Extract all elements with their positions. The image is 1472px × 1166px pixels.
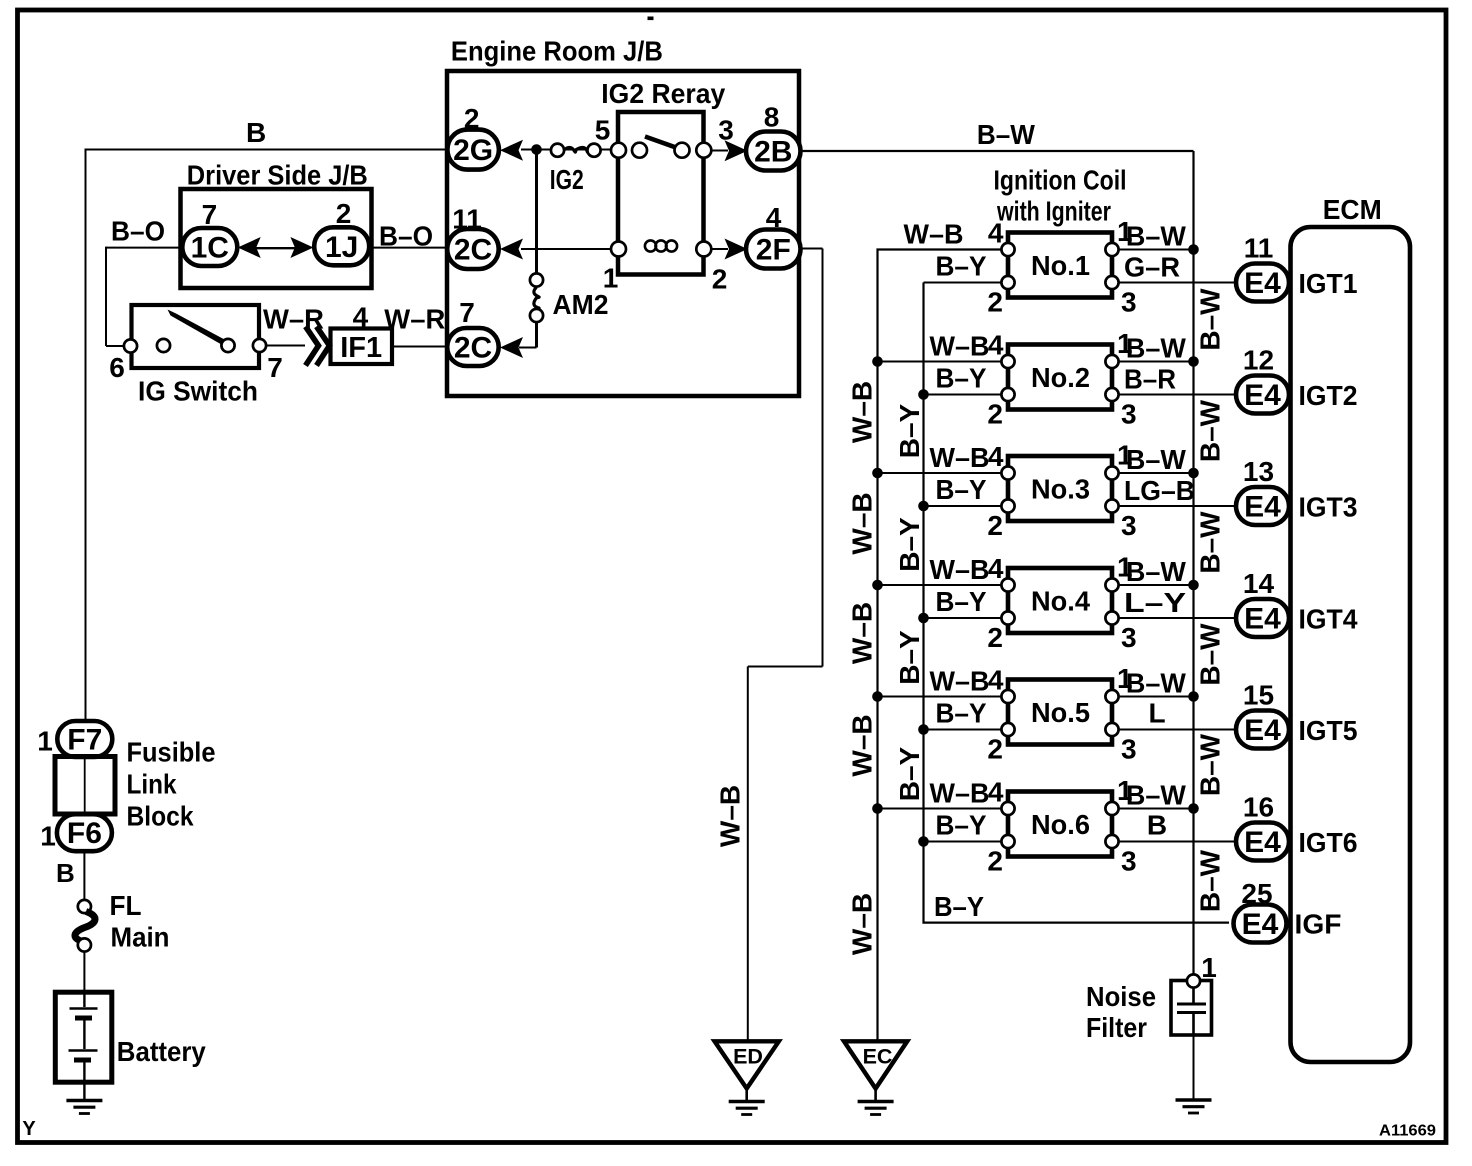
svg-text:16: 16 — [1243, 792, 1274, 823]
IG switch blade — [168, 310, 232, 349]
svg-text:B–O: B–O — [111, 216, 165, 247]
svg-text:4: 4 — [988, 777, 1004, 808]
IG switch terminal 7 (edge) — [253, 339, 266, 352]
svg-text:11: 11 — [1244, 233, 1274, 264]
svg-text:W–B: W–B — [904, 219, 964, 250]
svg-text:B–W: B–W — [977, 119, 1036, 150]
wire IF1 to 2C pin 7 — [392, 346, 448, 348]
IG switch terminal 6 — [124, 339, 137, 352]
svg-text:W–B: W–B — [846, 492, 877, 554]
svg-text:Driver Side J/B: Driver Side J/B — [187, 160, 368, 191]
svg-text:W–B: W–B — [930, 442, 990, 473]
svg-text:E4: E4 — [1242, 908, 1279, 941]
svg-text:3: 3 — [1121, 734, 1137, 765]
svg-text:W–B: W–B — [930, 666, 990, 697]
svg-text:IG2 Reray: IG2 Reray — [601, 78, 725, 109]
svg-text:B–W: B–W — [1126, 780, 1187, 811]
wire relay to 2B — [710, 150, 728, 152]
svg-text:2: 2 — [987, 622, 1003, 653]
svg-text:B–W: B–W — [1126, 668, 1187, 699]
svg-text:3: 3 — [1121, 510, 1137, 541]
svg-text:ED: ED — [733, 1045, 763, 1069]
coil No.2 pin 3 wire to E4 — [1119, 394, 1236, 396]
svg-text:14: 14 — [1243, 568, 1275, 599]
junction: coil No.6 pin2 on B-Y bus — [918, 836, 929, 847]
svg-text:7: 7 — [202, 199, 218, 230]
svg-text:12: 12 — [1243, 345, 1274, 376]
svg-text:15: 15 — [1243, 680, 1274, 711]
junction: coil No.2 pin1 on B-W bus — [1188, 356, 1199, 367]
coil No.5 pin 2 wire (B-Y) — [924, 729, 1002, 731]
svg-text:F7: F7 — [67, 724, 102, 757]
svg-text:1: 1 — [40, 821, 56, 852]
svg-text:IGT4: IGT4 — [1299, 604, 1358, 635]
coil No.1 pin 2 wire (B-Y) — [924, 282, 1002, 284]
svg-text:2B: 2B — [754, 136, 792, 169]
ignition coil No.4 — [1008, 568, 1112, 633]
bus B-Y vertical (igniter feedback) — [924, 283, 1230, 923]
svg-text:W–R: W–R — [384, 304, 445, 335]
svg-text:IGF: IGF — [1295, 909, 1342, 940]
noise filter — [1171, 981, 1212, 1036]
coil No.2 pin 2 wire (B-Y) — [924, 394, 1002, 396]
svg-text:2: 2 — [987, 734, 1003, 765]
coil No.3 pin 2 wire (B-Y) — [924, 505, 1002, 507]
svg-text:with Igniter: with Igniter — [996, 196, 1111, 227]
svg-text:1C: 1C — [191, 232, 229, 265]
svg-text:13: 13 — [1243, 456, 1274, 487]
coil No.3 terminals — [1001, 466, 1014, 479]
svg-text:FL: FL — [110, 890, 142, 921]
coil No.4 pin 3 wire to E4 — [1119, 617, 1236, 619]
svg-text:No.2: No.2 — [1031, 362, 1090, 393]
svg-text:IGT2: IGT2 — [1299, 380, 1358, 411]
svg-text:E4: E4 — [1244, 603, 1281, 636]
IG switch contact 7 — [221, 339, 234, 352]
wire IG switch to IF1 — [267, 345, 306, 347]
battery ground — [83, 1082, 85, 1100]
svg-text:AM2: AM2 — [553, 289, 609, 320]
svg-text:4: 4 — [988, 553, 1004, 584]
coil No.6 pin 1 wire (B-W) — [1119, 808, 1194, 810]
svg-text:2C: 2C — [454, 234, 492, 267]
coil No.3 pin 3 wire to E4 — [1119, 505, 1236, 507]
svg-text:W–B: W–B — [930, 554, 990, 585]
coil No.2 terminals — [1001, 355, 1014, 368]
svg-text:8: 8 — [764, 102, 780, 133]
svg-text:Engine Room J/B: Engine Room J/B — [451, 36, 663, 67]
svg-text:3: 3 — [1121, 399, 1137, 430]
svg-text:W–B: W–B — [846, 714, 877, 776]
junction: coil No.3 pin2 on B-Y bus — [918, 501, 929, 512]
arrow into 1C — [238, 237, 261, 258]
ground (noise filter) — [1176, 1098, 1212, 1102]
bus W-B vertical (coil supply) — [878, 250, 1002, 1043]
svg-text:LG–B: LG–B — [1124, 475, 1195, 506]
ignition coil No.3 — [1008, 456, 1112, 521]
svg-text:E4: E4 — [1244, 379, 1281, 412]
coil No.5 pin 1 wire (B-W) — [1119, 696, 1194, 698]
wire B: battery feed, left vertical and top horizontal to 2G — [86, 149, 448, 151]
svg-text:B–Y: B–Y — [894, 517, 925, 572]
svg-text:Noise: Noise — [1086, 981, 1156, 1012]
relay coil terminals — [611, 242, 626, 257]
svg-text:B–W: B–W — [1126, 444, 1187, 475]
svg-text:4: 4 — [988, 441, 1004, 472]
svg-text:Y: Y — [22, 1118, 36, 1140]
svg-text:2: 2 — [987, 399, 1003, 430]
svg-text:B–R: B–R — [1124, 364, 1176, 395]
chevron arrows into IF1 — [306, 327, 319, 366]
fuse IG2 — [551, 144, 564, 157]
arrow into 1J — [290, 237, 313, 258]
svg-text:IGT5: IGT5 — [1299, 715, 1358, 746]
svg-text:Battery: Battery — [117, 1036, 206, 1067]
svg-text:L: L — [1148, 698, 1165, 729]
junction: coil No.4 pin2 on B-Y bus — [918, 613, 929, 624]
wire AM2 to 2C pin 7 — [535, 323, 538, 348]
wire 1C to IG switch — [106, 247, 183, 249]
svg-text:2C: 2C — [454, 332, 492, 365]
coil No.5 terminals — [1001, 690, 1014, 703]
coil No.2 pin 4 wire (W-B) — [878, 361, 1002, 363]
coil No.1 pin 3 wire to E4 — [1119, 282, 1236, 284]
wire relay to 2F — [710, 248, 728, 250]
svg-text:B: B — [1147, 810, 1167, 841]
battery — [55, 992, 112, 1082]
coil No.4 pin 1 wire (B-W) — [1119, 584, 1194, 586]
junction: coil No.6 pin4 on W-B bus — [872, 803, 883, 814]
coil No.6 pin 2 wire (B-Y) — [924, 841, 1002, 843]
svg-text:2: 2 — [987, 287, 1003, 318]
svg-text:B–Y: B–Y — [934, 891, 984, 922]
ignition coil No.5 — [1008, 680, 1112, 745]
junction: coil No.6 pin1 on B-W bus — [1188, 803, 1199, 814]
coil No.4 pin 2 wire (B-Y) — [924, 617, 1002, 619]
svg-text:E4: E4 — [1244, 491, 1281, 524]
ignition coil No.1 — [1008, 233, 1112, 298]
relay switch contacts — [611, 143, 626, 158]
svg-text:2: 2 — [987, 510, 1003, 541]
svg-text:B–W: B–W — [1194, 511, 1225, 574]
svg-text:IGT1: IGT1 — [1299, 268, 1358, 299]
svg-text:3: 3 — [1121, 846, 1137, 877]
svg-text:W–B: W–B — [846, 893, 877, 955]
svg-text:B–Y: B–Y — [936, 586, 987, 617]
svg-text:5: 5 — [595, 115, 611, 146]
relay switch blade — [645, 137, 681, 150]
junction: coil No.2 pin2 on B-Y bus — [918, 389, 929, 400]
relay coil winding — [645, 240, 656, 251]
svg-text:No.4: No.4 — [1031, 586, 1090, 617]
svg-text:4: 4 — [988, 330, 1004, 361]
svg-text:B–W: B–W — [1194, 849, 1225, 912]
svg-text:4: 4 — [988, 665, 1004, 696]
IG Switch box — [132, 305, 260, 368]
svg-text:2: 2 — [336, 198, 352, 229]
bus B-W vertical — [1192, 151, 1194, 976]
svg-text:No.5: No.5 — [1031, 697, 1090, 728]
coil No.6 terminals — [1001, 802, 1014, 815]
junction: coil No.1 pin1 on B-W bus — [1188, 244, 1199, 255]
wire 1C to 1J — [256, 247, 296, 249]
svg-text:EC: EC — [863, 1045, 893, 1069]
junction: coil No.5 pin2 on B-Y bus — [918, 724, 929, 735]
stray scan mark top center — [648, 17, 654, 21]
coil No.1 terminals — [1001, 243, 1014, 256]
wire F6 to FL Main — [83, 851, 85, 900]
svg-text:7: 7 — [267, 352, 283, 383]
svg-text:Link: Link — [127, 769, 177, 800]
coil No.3 pin 1 wire (B-W) — [1119, 472, 1194, 474]
junction: coil No.3 pin1 on B-W bus — [1188, 468, 1199, 479]
junction dot AM2 branch — [531, 144, 542, 155]
svg-text:B–W: B–W — [1194, 399, 1225, 462]
coil No.4 pin 4 wire (W-B) — [878, 584, 1002, 586]
svg-text:No.3: No.3 — [1031, 474, 1090, 505]
coil No.2 pin 1 wire (B-W) — [1119, 361, 1194, 363]
fuse IF1 — [331, 329, 393, 365]
ignition coil No.2 — [1008, 345, 1112, 410]
svg-text:Ignition Coil: Ignition Coil — [994, 165, 1127, 196]
svg-text:4: 4 — [988, 218, 1004, 249]
svg-text:E4: E4 — [1244, 826, 1281, 859]
wire 2F to ED ground — [801, 248, 823, 250]
svg-text:2: 2 — [987, 846, 1003, 877]
svg-text:7: 7 — [459, 297, 475, 328]
fuse AM2 vertical wire — [535, 150, 538, 288]
coil No.6 pin 4 wire (W-B) — [878, 808, 1002, 810]
IG switch inner contact — [157, 339, 170, 352]
coil No.4 terminals — [1001, 578, 1014, 591]
svg-text:L–Y: L–Y — [1124, 587, 1186, 618]
svg-text:B–Y: B–Y — [936, 810, 987, 841]
svg-text:No.1: No.1 — [1031, 250, 1090, 281]
coil No.5 pin 4 wire (W-B) — [878, 696, 1002, 698]
fuse AM2 — [530, 273, 543, 286]
svg-text:E4: E4 — [1244, 267, 1281, 300]
svg-text:W–B: W–B — [715, 785, 746, 847]
svg-text:B–Y: B–Y — [894, 630, 925, 685]
wire 2C(11) to relay coil — [521, 248, 618, 250]
wire 2B to B-W bus — [801, 150, 1194, 152]
svg-text:B–W: B–W — [1194, 733, 1225, 796]
svg-text:IG2: IG2 — [550, 164, 584, 195]
svg-text:1J: 1J — [325, 231, 358, 264]
svg-text:W–B: W–B — [930, 331, 990, 362]
svg-text:B–W: B–W — [1194, 623, 1225, 686]
svg-text:B: B — [56, 858, 75, 888]
svg-text:2G: 2G — [453, 134, 493, 167]
junction: coil No.4 pin4 on W-B bus — [872, 580, 883, 591]
svg-text:B–W: B–W — [1194, 288, 1225, 351]
svg-text:1: 1 — [1201, 952, 1217, 983]
svg-text:IGT3: IGT3 — [1299, 492, 1358, 523]
ground point ED — [715, 1041, 779, 1088]
arrow into 2F — [725, 239, 748, 260]
svg-text:W–B: W–B — [846, 381, 877, 443]
junction: coil No.5 pin1 on B-W bus — [1188, 691, 1199, 702]
svg-text:3: 3 — [1121, 287, 1137, 318]
coil No.1 pin 1 wire (B-W) — [1119, 249, 1194, 251]
svg-text:2: 2 — [712, 264, 728, 295]
svg-text:B–Y: B–Y — [894, 403, 925, 458]
svg-text:2F: 2F — [756, 234, 791, 267]
svg-text:Main: Main — [111, 922, 170, 953]
junction: coil No.4 pin1 on B-W bus — [1188, 580, 1199, 591]
svg-text:ECM: ECM — [1323, 194, 1382, 225]
svg-text:W–B: W–B — [930, 778, 990, 809]
wire FL Main to battery — [83, 952, 85, 994]
svg-text:A11669: A11669 — [1379, 1123, 1436, 1140]
coil No.6 pin 3 wire to E4 — [1119, 841, 1236, 843]
svg-text:No.6: No.6 — [1031, 809, 1090, 840]
svg-text:3: 3 — [718, 115, 734, 146]
svg-text:B–Y: B–Y — [936, 363, 987, 394]
svg-text:6: 6 — [109, 352, 125, 383]
svg-text:IGT6: IGT6 — [1299, 827, 1358, 858]
svg-text:1: 1 — [37, 726, 53, 757]
arrow into 2C(7) — [500, 337, 523, 358]
svg-text:B: B — [246, 117, 266, 148]
wire 1J to 2C pin 11 — [369, 247, 447, 249]
arrow into 2C(11) — [500, 239, 523, 260]
svg-text:IF1: IF1 — [340, 332, 382, 364]
svg-text:B–W: B–W — [1126, 333, 1187, 364]
junction: coil No.2 pin4 on W-B bus — [872, 356, 883, 367]
svg-text:Filter: Filter — [1086, 1012, 1147, 1043]
ground point EC — [844, 1041, 907, 1088]
svg-text:B–Y: B–Y — [936, 251, 987, 282]
svg-text:3: 3 — [1121, 622, 1137, 653]
svg-text:G–R: G–R — [1124, 252, 1180, 283]
svg-text:Fusible: Fusible — [127, 737, 216, 768]
svg-text:F6: F6 — [67, 817, 102, 850]
svg-text:B–Y: B–Y — [936, 474, 987, 505]
wire noise filter to ground — [1193, 1035, 1195, 1099]
svg-text:W–B: W–B — [846, 602, 877, 664]
fusible link block — [55, 757, 115, 815]
arrow into 2G — [500, 140, 523, 161]
ignition coil No.6 — [1008, 792, 1112, 857]
coil No.5 pin 3 wire to E4 — [1119, 729, 1236, 731]
svg-text:E4: E4 — [1244, 714, 1281, 747]
junction: coil No.3 pin4 on W-B bus — [872, 468, 883, 479]
coil No.3 pin 4 wire (W-B) — [878, 472, 1002, 474]
svg-text:Block: Block — [127, 801, 194, 832]
svg-text:B–W: B–W — [1126, 221, 1187, 252]
svg-text:IG Switch: IG Switch — [138, 376, 258, 407]
fuse FL Main — [78, 900, 91, 913]
svg-text:W–R: W–R — [263, 304, 324, 335]
junction: coil No.5 pin4 on W-B bus — [872, 691, 883, 702]
arrow into 2B — [725, 140, 748, 161]
svg-text:B–W: B–W — [1126, 556, 1187, 587]
svg-text:B–Y: B–Y — [936, 698, 987, 729]
wire 2G to relay — [521, 149, 618, 151]
svg-text:B–Y: B–Y — [894, 746, 925, 801]
